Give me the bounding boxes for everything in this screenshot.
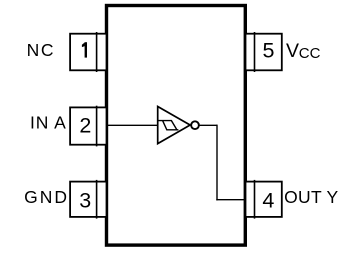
wire from bubble to corner — [199, 124, 217, 126]
svg-text:NC: NC — [27, 40, 55, 60]
svg-text:GND: GND — [24, 187, 69, 207]
pin 1 number — [82, 42, 87, 57]
output inversion bubble — [191, 121, 199, 129]
svg-text:CC: CC — [299, 45, 321, 62]
label VCC — [286, 40, 321, 62]
hysteresis symbol (upper stroke) — [158, 121, 177, 130]
pin 1 box — [70, 32, 106, 72]
hysteresis symbol (lower stroke) — [163, 121, 179, 130]
svg-text:4: 4 — [262, 189, 274, 213]
svg-text:3: 3 — [79, 189, 91, 213]
inverter gate U1 triangle — [158, 107, 190, 144]
svg-text:IN A: IN A — [30, 112, 67, 132]
IC package body U1 — [107, 6, 246, 246]
pin 4 box — [246, 180, 282, 219]
svg-text:2: 2 — [79, 114, 91, 138]
svg-text:OUT Y: OUT Y — [284, 187, 338, 207]
pin 2 box — [70, 106, 106, 147]
svg-text:5: 5 — [262, 39, 274, 63]
wire vertical segment down — [216, 125, 218, 201]
svg-text:V: V — [286, 40, 299, 62]
pin 3 box — [70, 180, 106, 219]
wire to pin 4 — [216, 199, 245, 201]
wire from pin 2 to inverter input — [107, 124, 158, 126]
pin 5 box — [246, 32, 282, 72]
